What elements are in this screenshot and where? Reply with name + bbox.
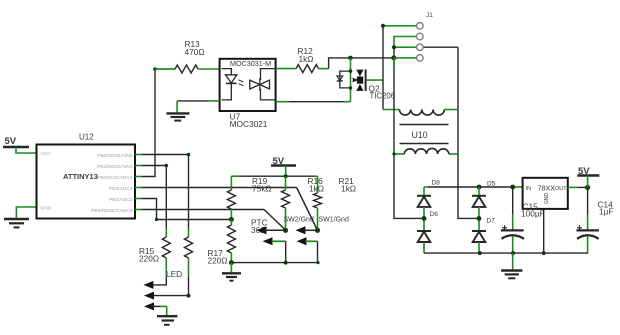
svg-text:PB3/ADC3: PB3/ADC3 [109,186,133,192]
svg-text:PB0/MOSI/AIN0: PB0/MOSI/AIN0 [97,153,133,159]
svg-text:GND: GND [544,193,550,205]
svg-text:PB4/ADC2: PB4/ADC2 [109,197,133,203]
svg-text:SW2/Gnd: SW2/Gnd [284,217,314,224]
svg-text:U12: U12 [79,133,94,142]
svg-text:D8: D8 [432,180,441,187]
svg-text:470Ω: 470Ω [185,47,205,57]
svg-text:SW1/Gnd: SW1/Gnd [319,217,349,224]
svg-text:D6: D6 [430,211,439,218]
svg-text:PB2/SCK/ADC1: PB2/SCK/ADC1 [97,175,132,181]
svg-text:1µF: 1µF [599,207,613,217]
svg-text:PB1/MISO/AIN1: PB1/MISO/AIN1 [97,164,133,170]
svg-text:220Ω: 220Ω [208,256,228,266]
svg-text:MOC3021: MOC3021 [230,119,268,129]
svg-text:IN: IN [526,186,532,192]
svg-text:PB5/RESET/ADC0: PB5/RESET/ADC0 [91,208,133,214]
svg-text:U10: U10 [412,130,428,140]
svg-text:5V: 5V [5,136,17,147]
svg-text:GND: GND [41,206,52,212]
svg-text:OUT: OUT [555,186,567,192]
svg-text:J1: J1 [426,12,433,19]
svg-text:78XX: 78XX [538,184,556,193]
svg-text:D7: D7 [487,218,496,225]
svg-text:VCC: VCC [41,151,52,157]
svg-text:1kΩ: 1kΩ [299,54,314,64]
svg-text:220Ω: 220Ω [139,254,159,264]
svg-text:100µF: 100µF [521,209,545,219]
svg-text:ATTINY13: ATTINY13 [63,172,98,181]
svg-text:D5: D5 [487,181,496,188]
svg-text:75kΩ: 75kΩ [252,184,272,194]
svg-text:LED: LED [166,269,182,279]
svg-text:1kΩ: 1kΩ [309,184,324,194]
svg-text:TIC206: TIC206 [370,92,396,101]
svg-text:MOC3031-M: MOC3031-M [230,59,271,68]
svg-text:1kΩ: 1kΩ [341,184,356,194]
